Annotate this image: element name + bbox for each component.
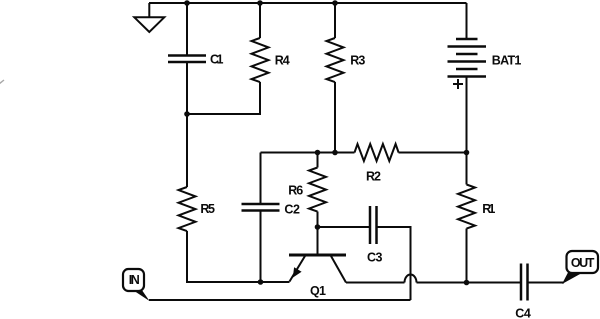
wire C4 to OUT xyxy=(528,282,565,284)
wire battery bottom xyxy=(466,77,468,153)
resistor R2 xyxy=(355,144,399,161)
resistor R5 xyxy=(179,187,196,231)
wire C1 top xyxy=(186,3,188,56)
node: junction dots xyxy=(184,0,469,285)
wire collector rail xyxy=(346,282,405,284)
wire to C4 xyxy=(417,282,521,284)
svg-text:C3: C3 xyxy=(367,251,383,265)
wire mid rail left xyxy=(261,152,355,154)
capacitor C4 xyxy=(521,264,528,301)
wire battery top xyxy=(466,3,468,39)
svg-text:OUT: OUT xyxy=(571,256,595,270)
wire C1 bottom to R5 xyxy=(186,62,188,187)
wire C2 top xyxy=(260,153,262,205)
wire ground stem xyxy=(148,3,150,18)
capacitor C1 xyxy=(168,56,206,63)
node R6 top junction xyxy=(315,150,321,156)
wire top rail xyxy=(149,2,467,4)
wire mid rail right xyxy=(399,152,467,154)
node R4 top xyxy=(257,0,263,6)
wire R1 bottom xyxy=(466,229,468,283)
wire C3 rail left xyxy=(318,226,370,228)
svg-text:BAT1: BAT1 xyxy=(492,54,522,68)
resistor R4 xyxy=(252,38,269,82)
wire R4 bottom xyxy=(186,82,260,114)
transistor Q1 xyxy=(289,255,346,283)
wire R4 top xyxy=(259,3,261,38)
battery plus sign xyxy=(453,79,463,89)
capacitor C3 xyxy=(370,206,377,244)
ground xyxy=(134,17,164,32)
wire R6 bottom xyxy=(317,212,319,228)
node R3 top xyxy=(332,0,338,6)
svg-text:R3: R3 xyxy=(350,53,365,67)
wire R6 top xyxy=(317,153,319,168)
svg-text:C4: C4 xyxy=(515,307,531,319)
resistor R1 xyxy=(458,185,475,229)
resistor R6 xyxy=(309,168,326,212)
svg-text:IN: IN xyxy=(129,273,140,287)
wire IN rail xyxy=(149,299,411,301)
wire R3 top xyxy=(334,3,336,38)
svg-text:R4: R4 xyxy=(275,53,290,67)
wire hop over vertical xyxy=(405,275,417,283)
svg-text:C2: C2 xyxy=(284,203,300,217)
wire R1 top xyxy=(458,153,475,283)
node base junction xyxy=(315,224,321,230)
svg-text:C1: C1 xyxy=(210,53,224,67)
port IN xyxy=(123,269,150,301)
node R3 bottom junction xyxy=(332,150,338,156)
wire C3 rail right xyxy=(377,227,411,300)
capacitor C2 xyxy=(242,204,280,211)
svg-text:Q1: Q1 xyxy=(310,284,326,298)
node C1 bottom junction xyxy=(184,111,190,117)
wire R5 bottom / emitter rail xyxy=(187,231,290,282)
svg-text:R1: R1 xyxy=(482,202,495,216)
node battery bottom junction xyxy=(464,150,470,156)
svg-text:R5: R5 xyxy=(200,202,215,216)
resistor R3 xyxy=(327,38,344,82)
artifact left edge xyxy=(0,80,4,84)
node C2 bottom junction xyxy=(258,279,264,285)
wire Q1 base xyxy=(317,227,319,254)
wire C2 bottom xyxy=(260,211,262,283)
wire R3 bottom xyxy=(334,82,336,153)
battery BAT1 xyxy=(448,39,487,77)
svg-text:R2: R2 xyxy=(366,170,381,184)
port OUT xyxy=(562,251,598,284)
node C1 top xyxy=(184,0,190,6)
node collector/R1 junction xyxy=(464,280,470,286)
svg-text:R6: R6 xyxy=(288,183,303,197)
